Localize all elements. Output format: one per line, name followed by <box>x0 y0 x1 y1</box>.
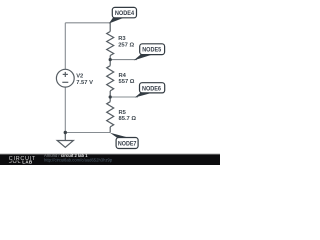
node NODE6 <box>135 83 165 98</box>
wire top horizontal <box>65 22 110 24</box>
svg-text:7.57 V: 7.57 V <box>76 80 93 86</box>
svg-text:http://circuitlab.com/c/aud652: http://circuitlab.com/c/aud652h3hz9p <box>44 158 113 163</box>
svg-text:NODE5: NODE5 <box>142 47 161 54</box>
svg-text:R3: R3 <box>118 36 126 42</box>
wire node6 stub <box>110 96 138 98</box>
svg-text:LAB: LAB <box>22 159 32 164</box>
junction dot node5 <box>109 58 112 61</box>
junction dot left bottom <box>64 131 67 134</box>
svg-text:NODE6: NODE6 <box>142 85 161 92</box>
watermark logo squiggle <box>9 161 21 163</box>
svg-text:V2: V2 <box>76 74 83 80</box>
node NODE7 <box>110 133 138 149</box>
wire left vertical upper <box>64 23 66 70</box>
resistor R5 <box>107 97 114 133</box>
svg-text:557 Ω: 557 Ω <box>119 79 135 85</box>
voltage source V2 <box>56 69 74 87</box>
svg-text:R5: R5 <box>119 110 127 116</box>
wire left vertical lower <box>64 87 66 132</box>
resistor R4 <box>107 60 114 97</box>
wire node5 stub <box>110 59 137 61</box>
svg-text:85.7 Ω: 85.7 Ω <box>119 116 137 122</box>
ground <box>57 133 73 148</box>
svg-text:R4: R4 <box>119 73 127 79</box>
resistor R3 <box>107 23 114 60</box>
node NODE5 <box>134 44 165 61</box>
svg-text:NODE4: NODE4 <box>115 10 134 17</box>
junction dot node6 <box>109 95 112 98</box>
wire bottom horizontal <box>65 132 110 134</box>
svg-text:257 Ω: 257 Ω <box>118 42 134 48</box>
node NODE4 <box>109 7 137 23</box>
svg-text:NODE7: NODE7 <box>118 141 137 148</box>
